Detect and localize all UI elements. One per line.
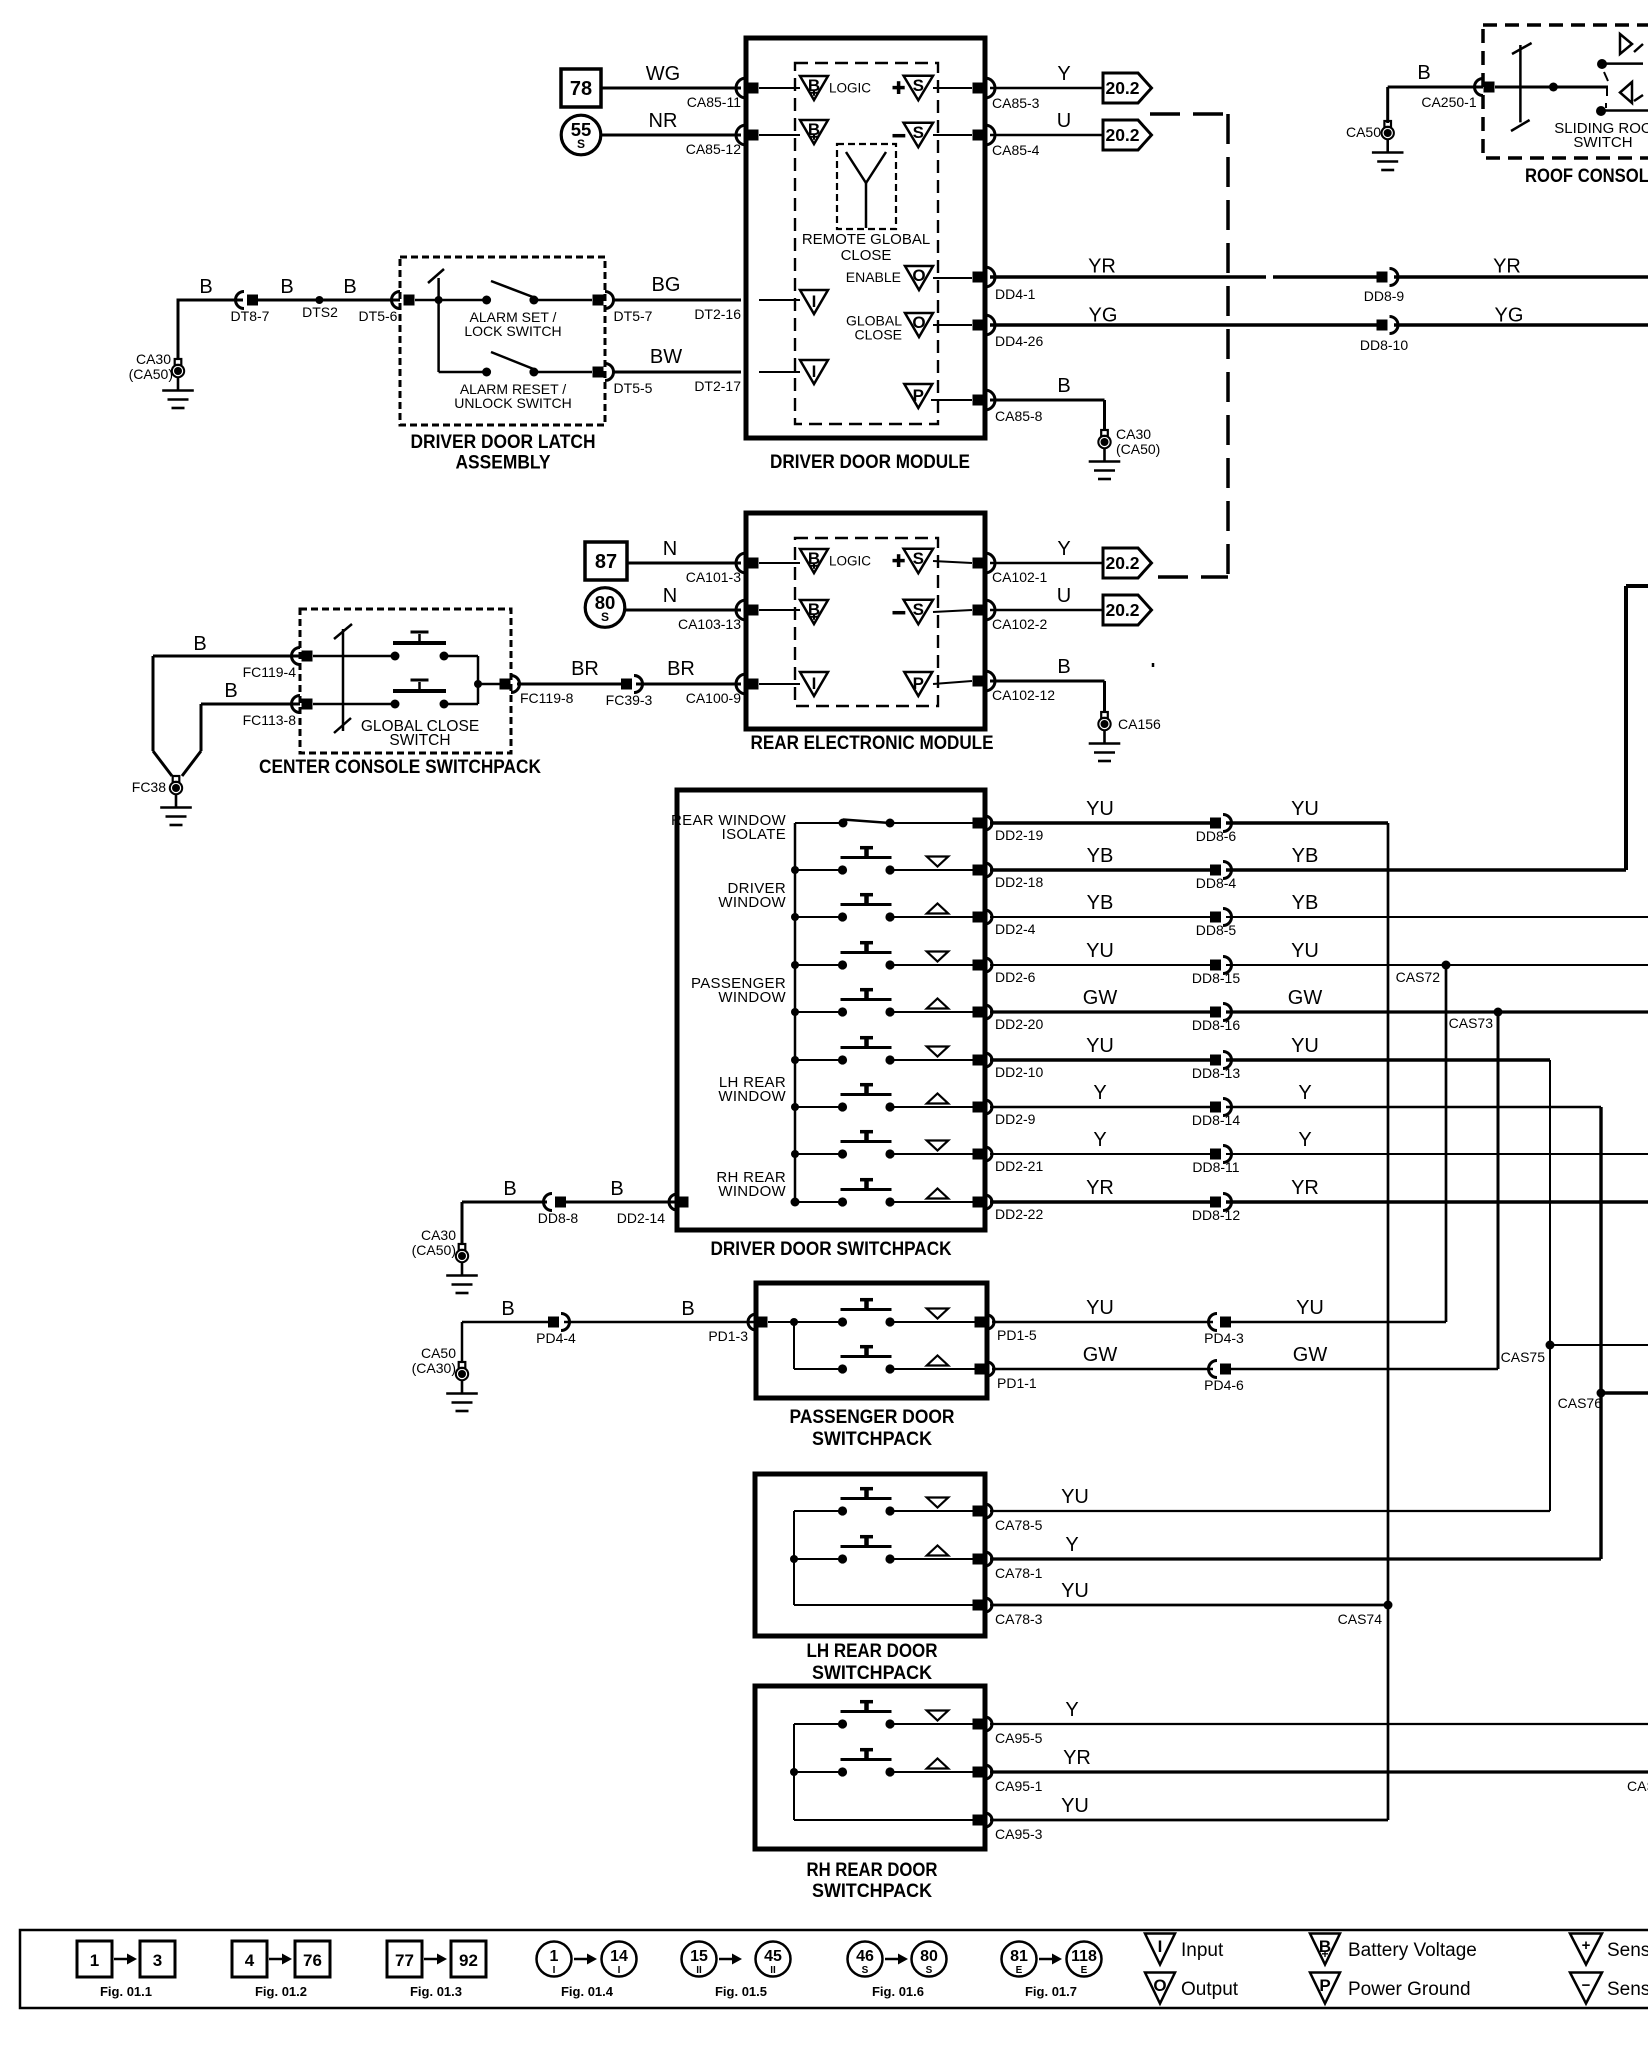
ground CA30 (CA50) module right [1101,430,1108,436]
wire N CA101-3 [627,562,741,565]
rear sensor + S triangle [893,559,905,563]
svg-text:CA85-4: CA85-4 [992,142,1040,158]
passenger door switchpack box [756,1283,987,1398]
svg-text:DD4-26: DD4-26 [995,333,1043,349]
wire CAS75 to offpage [1550,1344,1648,1346]
wire BR segment 2 [636,683,741,686]
svg-text:DT2-16: DT2-16 [694,306,741,322]
ground CA30 (CA50) left [175,359,182,365]
bus vertical YB to offpage [1624,586,1628,870]
svg-text:DD8-5: DD8-5 [1196,922,1237,938]
svg-text:Sensor: Sensor [1607,1979,1648,2000]
wire B CA85-8 [990,399,1105,402]
svg-text:I: I [812,674,817,693]
svg-text:DD8-4: DD8-4 [1196,875,1237,891]
alarm reset / unlock switch [439,371,487,374]
svg-text:78: 78 [570,78,592,100]
wire YU PD1-5 [992,1321,1213,1324]
wire Y CA85-3 [990,87,1103,90]
connector DD8-15 [1210,960,1221,971]
svg-text:CLOSE: CLOSE [841,247,892,264]
svg-text:DT5-5: DT5-5 [614,380,653,396]
svg-text:B: B [1417,62,1430,84]
console mechanical bar [342,629,345,731]
rear sensor - S triangle [893,611,906,615]
rear entry CA100-9 [736,674,746,694]
svg-text:FC119-4: FC119-4 [243,664,297,680]
svg-text:Y: Y [1298,1129,1311,1151]
switch row 4 (DD2-6) [795,964,843,966]
svg-text:(CA30): (CA30) [412,1360,456,1376]
svg-text:1: 1 [550,1948,559,1965]
wire Y CA78-1 [990,1557,1601,1560]
rear power ground P triangle [904,672,932,696]
svg-text:S: S [926,1965,933,1976]
latch mechanical actuator [437,278,440,300]
svg-text:14: 14 [610,1948,628,1965]
wire B to DD2-14 [566,1201,677,1204]
svg-text:ROOF CONSOLE: ROOF CONSOLE [1525,165,1648,187]
latch link vertical [437,300,440,372]
svg-text:Y: Y [1057,63,1070,85]
roof switch common junction [1549,83,1558,92]
svg-text:CA78-3: CA78-3 [995,1611,1043,1627]
svg-text:YB: YB [1087,845,1114,867]
svg-text:YU: YU [1061,1580,1089,1602]
svg-text:P: P [913,674,924,693]
module entry CA85-12 [736,125,746,145]
console wire row 1 [313,655,395,658]
svg-text:WINDOW: WINDOW [718,1183,786,1200]
connector DD8-16 [1210,1007,1221,1018]
svg-text:CA85-11: CA85-11 [687,94,741,110]
switch row 6 (DD2-10) [795,1059,843,1061]
roof switch upper contact [1597,59,1607,69]
svg-text:FC119-8: FC119-8 [520,690,574,706]
svg-text:NR: NR [649,110,678,132]
wire U CA102-2 [990,609,1103,612]
svg-text:+: + [1582,1937,1591,1954]
svg-text:CLOSE: CLOSE [855,327,902,343]
junction CAS73 [1494,1008,1503,1017]
svg-text:DD2-21: DD2-21 [995,1158,1043,1174]
svg-text:S: S [577,137,585,151]
rear module exit CA102-2 [973,605,984,616]
svg-text:CA103-13: CA103-13 [678,616,741,632]
global close switch 2 [391,700,400,709]
svg-text:DTS2: DTS2 [302,304,338,320]
rh rear door switchpack box [755,1686,985,1849]
svg-text:CA95-3: CA95-3 [995,1826,1043,1842]
driver door module box [746,38,985,438]
svg-text:U: U [1057,585,1071,607]
svg-text:DD2-4: DD2-4 [995,921,1036,937]
svg-text:Input: Input [1181,1940,1224,1961]
driver door switchpack box [677,790,985,1230]
rear destination 20.2 (U) [1103,595,1152,625]
wire YU CA78-5 [990,1510,1550,1512]
svg-text:DD2-22: DD2-22 [995,1206,1043,1222]
module entry CA85-11 [736,78,746,98]
svg-text:Fig. 01.1: Fig. 01.1 [100,1984,152,1999]
svg-text:WG: WG [646,63,680,85]
svg-text:YU: YU [1291,1035,1319,1057]
svg-text:B: B [681,1298,694,1320]
svg-text:PD4-4: PD4-4 [536,1330,576,1346]
wire YU row 4 cont. [1226,964,1648,966]
svg-text:YR: YR [1086,1177,1114,1199]
svg-text:GW: GW [1293,1344,1328,1366]
svg-text:DT2-17: DT2-17 [694,378,741,394]
junction CAS72 [1442,961,1451,970]
rear electronic module box [746,513,985,729]
connector DD8-11 [1210,1149,1221,1160]
svg-text:CA30: CA30 [421,1227,456,1243]
wire B to PD1-3 [564,1321,756,1324]
driver door module inner dashed box [795,63,938,424]
wire Y row 8 cont. [1226,1153,1648,1155]
svg-text:YG: YG [1495,305,1524,327]
svg-text:CA102-12: CA102-12 [992,687,1055,703]
svg-text:RH REAR DOOR: RH REAR DOOR [807,1859,938,1881]
legend fig 01.1 [77,1941,112,1977]
svg-text:ASSEMBLY: ASSEMBLY [456,452,551,474]
funnel join to FC38 [153,751,172,776]
connector PD4-4 [548,1317,559,1328]
wire BG DT2-16 [614,299,741,302]
svg-text:B: B [224,680,237,702]
svg-text:Power Ground: Power Ground [1348,1979,1471,2000]
svg-text:LOGIC: LOGIC [829,81,871,96]
wire YU PD4-3 cont. [1231,1321,1446,1324]
wire YR row 9 to DD8-12 [990,1200,1210,1204]
svg-text:46: 46 [856,1948,874,1965]
svg-text:DD2-18: DD2-18 [995,874,1043,890]
svg-text:YG: YG [1089,305,1118,327]
svg-text:DD8-11: DD8-11 [1192,1159,1239,1175]
module exit DD4-1 [973,272,984,283]
wire BW DT2-17 [614,371,741,374]
svg-text:DD2-9: DD2-9 [995,1111,1036,1127]
svg-text:REMOTE GLOBAL: REMOTE GLOBAL [802,231,930,248]
svg-text:PD1-3: PD1-3 [708,1328,748,1344]
svg-text:45: 45 [764,1948,782,1965]
svg-text:DD8-13: DD8-13 [1192,1065,1240,1081]
wire GW PD4-6 cont. [1231,1368,1498,1371]
remote global close antenna dashed box [837,144,896,229]
wire YU row 1 cont. [1226,821,1388,825]
svg-text:WINDOW: WINDOW [718,894,786,911]
passenger switch row 1 [838,1317,847,1326]
svg-text:DD2-14: DD2-14 [617,1210,665,1226]
wire YU row 4 to DD8-15 [990,964,1210,966]
svg-text:DT8-7: DT8-7 [231,308,270,324]
svg-text:YU: YU [1296,1297,1324,1319]
svg-text:B: B [1057,656,1070,678]
splice 55 S (circle ref) [561,115,601,155]
svg-text:N: N [663,585,677,607]
svg-text:WINDOW: WINDOW [718,1088,786,1105]
svg-text:Output: Output [1181,1979,1239,2000]
wire YB row 3 to DD8-5 [990,916,1210,918]
svg-text:CAS77: CAS77 [1627,1778,1648,1794]
svg-text:ISOLATE: ISOLATE [722,826,786,843]
connector DD8-8 [544,1194,553,1211]
junction CAS76 [1597,1389,1606,1398]
svg-text:S: S [913,76,924,95]
svg-text:CA100-9: CA100-9 [686,690,741,706]
center console switchpack dashed box [300,609,511,753]
svg-text:DD2-6: DD2-6 [995,969,1036,985]
passenger entry PD1-3 [748,1314,756,1330]
driver door latch assembly (dashed box) [400,257,605,425]
legend box [20,1930,1648,2008]
wire Y row 8 to DD8-11 [990,1153,1210,1155]
svg-text:Y: Y [1093,1082,1106,1104]
svg-text:DD8-15: DD8-15 [1192,970,1240,986]
switchpack entry DD2-14 [669,1194,677,1210]
input I triangle DT2-16 [759,299,800,301]
svg-text:B: B [199,276,212,298]
wire N CA103-13 [625,609,741,612]
svg-text:87: 87 [595,551,617,573]
svg-text:CA30: CA30 [136,351,171,367]
rear battery voltage triangle B+ 1 [800,549,828,573]
svg-text:CA95-5: CA95-5 [995,1730,1043,1746]
latch node junction [415,299,487,302]
svg-text:−: − [1582,1977,1591,1994]
bus vertical CAS72 to passenger [1445,965,1448,1322]
wire B roof CA250-1 [1386,87,1389,123]
svg-text:PD1-1: PD1-1 [997,1375,1037,1391]
svg-text:YR: YR [1291,1177,1319,1199]
switchpack left bus [794,823,797,1202]
rear module inner dashed box [795,538,938,706]
svg-text:CAS74: CAS74 [1338,1611,1383,1627]
svg-text:DD8-16: DD8-16 [1192,1017,1240,1033]
module exit CA85-3 [973,83,984,94]
svg-text:BR: BR [667,658,695,680]
svg-text:PD4-3: PD4-3 [1204,1330,1244,1346]
wire YU CA78-3 [990,1604,1388,1607]
connector 87 (power feed box) [585,542,627,580]
wire GW row 5 to DD8-16 [990,1010,1210,1013]
svg-text:GW: GW [1083,1344,1118,1366]
bus vertical row6 to LH door [1549,1060,1551,1511]
connector DD8-14 [1210,1102,1221,1113]
svg-text:DD8-14: DD8-14 [1192,1112,1240,1128]
svg-text:20.2: 20.2 [1105,553,1139,573]
wire YG DD4-26 [990,323,1378,327]
ground CA30 (CA50) switchpack [459,1244,466,1250]
svg-text:CA50: CA50 [1346,124,1381,140]
switch row 7 (DD2-9) [795,1106,843,1108]
svg-text:DD8-6: DD8-6 [1196,828,1237,844]
svg-text:SWITCH: SWITCH [1573,134,1632,151]
svg-text:YB: YB [1292,892,1319,914]
svg-text:LOCK SWITCH: LOCK SWITCH [464,323,561,339]
svg-text:Fig. 01.7: Fig. 01.7 [1025,1984,1077,1999]
legend output symbol [1145,1973,1175,2004]
connector DD8-5 [1210,912,1221,923]
svg-text:I: I [812,292,817,311]
svg-text:CA102-1: CA102-1 [992,569,1047,585]
svg-text:YU: YU [1086,1297,1114,1319]
svg-text:O: O [912,266,925,285]
lh bus [793,1511,795,1605]
switch row 9 (DD2-22) [795,1201,843,1203]
connector DD8-12 [1210,1197,1221,1208]
sensor - S triangle [893,134,906,138]
svg-text:YR: YR [1088,256,1116,278]
roof switch mechanical bar [1519,45,1522,122]
svg-text:UNLOCK SWITCH: UNLOCK SWITCH [454,395,571,411]
wire B FC119-4 [153,655,300,658]
rear input I triangle [800,672,828,696]
svg-text:4: 4 [245,1951,255,1970]
switch row 5 (DD2-20) [795,1011,843,1013]
wire YB row 2 to DD8-4 [990,868,1210,872]
global close switch 1 [391,652,400,661]
svg-text:LOGIC: LOGIC [829,554,871,569]
wire GW PD1-1 [992,1368,1213,1371]
switch row 2 (DD2-18) [795,869,843,871]
wire YU row 6 to DD8-13 [990,1058,1210,1062]
svg-text:S: S [913,549,924,568]
legend battery voltage symbol [1310,1934,1340,1965]
svg-text:LH REAR DOOR: LH REAR DOOR [807,1640,938,1662]
svg-text:WINDOW: WINDOW [718,989,786,1006]
legend fig 01.2 [232,1941,267,1977]
svg-text:GW: GW [1288,987,1323,1009]
svg-text:CA78-1: CA78-1 [995,1565,1043,1581]
legend input symbol [1145,1934,1175,1965]
wire WG CA85-11 [601,87,741,90]
svg-text:3: 3 [153,1951,162,1970]
legend fig 01.6 [848,1942,883,1977]
wire CAS76 to offpage [1601,1391,1648,1395]
svg-text:P: P [1319,1976,1330,1995]
bus vertical from DD8-6 (to CAS74/RH door) [1387,823,1390,1820]
svg-text:76: 76 [303,1951,322,1970]
bus vertical CAS73 to passenger [1497,1012,1500,1369]
svg-text:(CA50): (CA50) [412,1242,456,1258]
svg-text:PD1-5: PD1-5 [997,1327,1037,1343]
destination 20.2 (Y) [1103,73,1152,103]
svg-text:Fig. 01.5: Fig. 01.5 [715,1984,767,1999]
wire Y row 7 cont. [1226,1106,1601,1109]
svg-text:CAS73: CAS73 [1449,1015,1494,1031]
wire YU CA95-3 [990,1819,1388,1822]
svg-text:DD8-12: DD8-12 [1192,1207,1240,1223]
svg-text:(CA50): (CA50) [1116,441,1160,457]
wire Y row 7 to DD8-14 [990,1106,1210,1109]
svg-text:DRIVER DOOR SWITCHPACK: DRIVER DOOR SWITCHPACK [711,1238,952,1260]
battery voltage triangle B+ 2 [800,120,828,144]
wire B segment 1 [178,299,243,302]
legend sensor + symbol [1570,1934,1602,1965]
wire YG continuing right [1394,323,1648,327]
rh switch row 1 [794,1723,843,1725]
svg-text:CA101-3: CA101-3 [686,569,741,585]
svg-text:DRIVER DOOR MODULE: DRIVER DOOR MODULE [770,451,970,473]
svg-text:FC38: FC38 [132,779,166,795]
svg-text:YU: YU [1086,798,1114,820]
splice DTS2 [315,296,323,304]
svg-text:DD8-8: DD8-8 [538,1210,579,1226]
svg-text:81: 81 [1010,1948,1028,1965]
svg-text:92: 92 [459,1951,478,1970]
wire B down leg 2 [200,704,203,751]
switch row 3 (DD2-4) [795,916,843,918]
lh switch row 2 [794,1558,843,1560]
rh direct row 3 [794,1819,973,1821]
wire B vertical to ground [177,299,180,360]
svg-text:CENTER CONSOLE SWITCHPACK: CENTER CONSOLE SWITCHPACK [259,756,541,778]
svg-text:Y: Y [1298,1082,1311,1104]
input I triangle DT2-17 [759,371,800,373]
wire YR CA95-1 [990,1770,1648,1773]
svg-text:CAS75: CAS75 [1501,1349,1546,1365]
svg-text:YU: YU [1086,940,1114,962]
passenger bus [768,1321,843,1323]
legend fig 01.3 [387,1941,422,1977]
svg-text:SWITCHPACK: SWITCHPACK [812,1880,932,1902]
rh switch row 2 [794,1771,843,1773]
console entry FC113-8 [292,696,301,713]
svg-text:FC39-3: FC39-3 [606,692,653,708]
connector 78 (power feed box) [561,69,601,107]
svg-text:YU: YU [1061,1486,1089,1508]
latch entry connector DT5-6 [392,292,401,309]
svg-text:CA30: CA30 [1116,426,1151,442]
svg-text:B: B [610,1178,623,1200]
svg-text:Battery Voltage: Battery Voltage [1348,1940,1477,1961]
lh rear door switchpack box [755,1474,985,1636]
wire BR segment 1 [517,683,621,686]
battery voltage triangle B+ 1 [800,76,828,100]
latch exit connector DT5-7 [593,295,604,306]
svg-text:80: 80 [920,1948,938,1965]
wire YR DD4-1 left part [990,275,1266,279]
svg-text:Y: Y [1065,1699,1078,1721]
legend fig 01.5 [682,1942,717,1977]
svg-text:REAR ELECTRONIC MODULE: REAR ELECTRONIC MODULE [751,732,994,754]
wire B CA102-12 [990,680,1105,683]
svg-text:I: I [553,1965,556,1976]
svg-text:I: I [1158,1937,1163,1956]
rh bus [793,1724,795,1820]
wire Y CA95-5 [990,1723,1648,1725]
svg-text:CA250-1: CA250-1 [1421,94,1476,110]
bus vertical row7 to LH door [1599,1107,1602,1559]
svg-text:I: I [618,1965,621,1976]
console right link [444,655,478,658]
ground CA50 roof [1384,121,1391,127]
module exit CA85-8 [973,395,984,406]
legend fig 01.7 [1002,1942,1037,1977]
wire GW row 5 cont. [1226,1010,1648,1013]
ground FC38 [173,776,180,782]
wire Y CA102-1 [990,562,1103,565]
passenger switch row 2 [838,1364,847,1373]
svg-text:DRIVER DOOR LATCH: DRIVER DOOR LATCH [411,431,596,453]
svg-text:YU: YU [1291,798,1319,820]
svg-text:YU: YU [1086,1035,1114,1057]
svg-text:YB: YB [1292,845,1319,867]
svg-text:Y: Y [1065,1534,1078,1556]
splice 80 S (circle ref) [585,588,625,628]
